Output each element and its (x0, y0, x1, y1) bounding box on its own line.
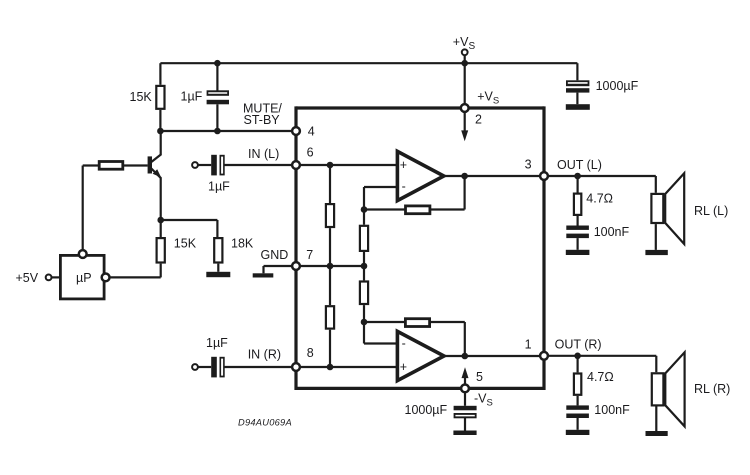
wire mute row (160, 130, 292, 132)
svg-text:GND: GND (261, 248, 289, 262)
svg-text:+: + (400, 360, 407, 374)
resistor R11 4.7ohm (574, 176, 613, 226)
svg-text:+5V: +5V (16, 271, 39, 285)
junction dot mute/R1 (157, 128, 164, 135)
resistor R5 ladder upper-left (326, 165, 334, 266)
svg-text:1µF: 1µF (181, 89, 203, 103)
svg-text:6: 6 (307, 146, 314, 160)
junction dot pin6/ladder (327, 162, 334, 169)
pin 7 (292, 248, 313, 270)
node IN (R) terminal (192, 364, 211, 370)
node MUTE/ST-BY label (243, 101, 282, 127)
pin 5 arrow (462, 367, 469, 385)
pin 8 (292, 346, 314, 371)
capacitor C4 1uF input R (206, 336, 228, 378)
junction dot mid ladder pin7 (361, 263, 368, 270)
svg-text:100nF: 100nF (594, 225, 630, 239)
node IN (L) terminal (192, 162, 211, 168)
wire op-amp2 inverting input (364, 322, 397, 344)
svg-text:18K: 18K (231, 236, 254, 250)
pin 1 (525, 338, 548, 360)
resistor R8 ladder lower-mid (360, 266, 368, 322)
ground C1 (566, 104, 590, 110)
junction dot mid ladder top (361, 206, 368, 213)
wire to speaker L (655, 176, 657, 193)
resistor R6 ladder lower-left (326, 266, 334, 367)
wire base row (124, 164, 148, 166)
svg-text:ST-BY: ST-BY (244, 113, 281, 127)
svg-text:1µF: 1µF (208, 179, 230, 193)
capacitor C6 100nF (566, 403, 630, 430)
junction dot ladder/pin8 row (327, 364, 334, 371)
ground C6 (566, 430, 590, 435)
resistor R7 ladder upper-mid (360, 210, 368, 267)
wire op-amp2 noninverting input (296, 366, 397, 368)
wire to speaker R (655, 356, 657, 372)
svg-text:1µF: 1µF (206, 336, 228, 350)
capacitor C7 1000uF (405, 392, 477, 430)
wire C4 to pin 8 (225, 366, 293, 368)
svg-text:D94AU069A: D94AU069A (238, 418, 292, 428)
op-amp U1B (397, 331, 444, 380)
speaker RL (R) (652, 352, 731, 431)
wire to uP top pin (82, 166, 84, 251)
svg-text:3: 3 (525, 157, 532, 171)
junction dot mute/C2 (214, 128, 221, 135)
wire OUT (R) row (544, 355, 656, 357)
svg-text:1: 1 (525, 338, 532, 352)
junction dot top rail / +Vs (461, 60, 468, 67)
capacitor C5 100nF (566, 225, 629, 250)
pin 5 (461, 370, 493, 409)
pin 4 (292, 124, 315, 138)
svg-text:RL (L): RL (L) (694, 204, 728, 218)
svg-text:+: + (400, 158, 407, 172)
svg-text:RL (R): RL (R) (694, 382, 730, 396)
pin 3 (525, 157, 548, 180)
ground C7 (453, 431, 476, 436)
svg-text:8: 8 (307, 346, 314, 360)
wire pin6 to op-amp + (296, 164, 397, 166)
svg-text:OUT (R): OUT (R) (555, 338, 602, 352)
resistor R1 15K (130, 63, 165, 131)
ground R3 (206, 272, 230, 277)
speaker RL (L) (651, 173, 728, 250)
junction dot output L / feedback (461, 173, 468, 180)
resistor R2 15K (157, 220, 197, 277)
junction dot top rail / C2 (214, 60, 221, 67)
capacitor C2 1uF (181, 63, 230, 131)
resistor R4 base (83, 162, 123, 170)
svg-text:1000µF: 1000µF (405, 403, 448, 417)
svg-text:4: 4 (308, 124, 315, 138)
svg-text:IN (L): IN (L) (248, 147, 279, 161)
op-amp U1 IC box (296, 106, 544, 390)
capacitor C3 1uF input L (208, 155, 230, 194)
svg-text:IN (R): IN (R) (248, 348, 281, 362)
svg-text:15K: 15K (130, 90, 153, 104)
op-amp U1A (397, 151, 443, 200)
svg-text:-: - (402, 337, 406, 351)
junction dot ladder/pin7 row (327, 263, 334, 270)
svg-text:OUT (L): OUT (L) (557, 158, 602, 172)
wire top supply rail (160, 62, 577, 64)
svg-text:1000µF: 1000µF (596, 79, 639, 93)
wire op-amp1 output (444, 175, 540, 177)
wire OUT (L) row (544, 175, 656, 177)
ground pin7 (253, 273, 274, 277)
ground RL (L) (645, 250, 667, 255)
svg-text:µP: µP (76, 271, 92, 285)
node +Vs terminal (453, 35, 476, 63)
pin 2 arrow (461, 112, 468, 142)
svg-text:2: 2 (475, 112, 482, 126)
wire C3 to pin 6 (225, 164, 293, 166)
pin 6 (292, 146, 314, 169)
ground RL (R) (646, 431, 668, 436)
resistor R3 18K (214, 236, 254, 271)
wire +Vs to pin 2 (464, 63, 466, 108)
wire R2 to uP right pin (109, 276, 160, 278)
wire emitter node to 18K (161, 220, 218, 237)
junction dot output R / feedback (462, 353, 469, 360)
junction dot mid ladder bottom (361, 319, 368, 326)
capacitor C1 1000uF (566, 63, 639, 104)
resistor R12 4.7ohm (574, 356, 614, 406)
junction dot emitter node (157, 217, 164, 224)
svg-text:100nF: 100nF (594, 403, 630, 417)
resistor R9 feedback L (364, 176, 465, 214)
node GND (261, 248, 293, 273)
svg-text:7: 7 (306, 248, 313, 262)
svg-text:5: 5 (476, 370, 483, 384)
svg-text:4.7Ω: 4.7Ω (586, 192, 613, 206)
wire pin7 row (296, 265, 364, 267)
op-amp U2 uP box (60, 250, 109, 299)
transistor Q1 (148, 131, 162, 220)
node +5V terminal (16, 271, 60, 285)
svg-text:15K: 15K (174, 236, 197, 250)
svg-text:-: - (402, 180, 406, 194)
junction dot out R / snubber (574, 353, 581, 360)
wire op-amp2 output (444, 355, 540, 357)
pin 2 (461, 90, 499, 127)
wire op-amp1 inverting input (364, 187, 397, 210)
svg-text:4.7Ω: 4.7Ω (587, 370, 614, 384)
ground C5 (566, 250, 590, 255)
resistor R10 feedback R (364, 319, 465, 356)
junction dot out L / snubber (574, 173, 581, 180)
